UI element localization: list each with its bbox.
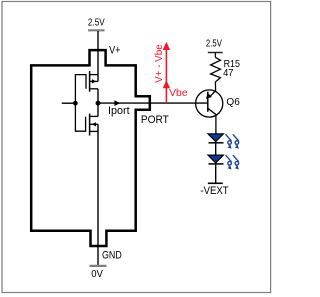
supply -VEXT xyxy=(200,183,229,197)
wire GND (NMOS source to ground) xyxy=(97,124,99,265)
svg-text:V+ - Vbe: V+ - Vbe xyxy=(154,44,165,83)
svg-text:2.5V: 2.5V xyxy=(206,38,222,49)
emitter arrow Q6 (points into base, PNP) xyxy=(206,93,212,99)
power rail 2.5V (left) xyxy=(88,17,106,31)
wire PORT to transistor base xyxy=(98,102,208,104)
LED D1 xyxy=(208,134,224,143)
source lead M2 xyxy=(90,130,98,132)
svg-text:Iport: Iport xyxy=(108,105,130,117)
gate bracket M1 xyxy=(75,75,86,104)
MOSFET M1 (PMOS) xyxy=(75,71,98,103)
wire D1 to D2 xyxy=(215,143,217,155)
svg-text:PORT: PORT xyxy=(141,114,169,126)
current arrow Iport xyxy=(114,100,120,106)
collector Q6 xyxy=(208,108,216,134)
transistor Q6 (PNP) xyxy=(196,90,223,134)
light arrows D2 xyxy=(226,155,239,169)
arrow on M2 body lead (points left) xyxy=(92,122,97,126)
svg-text:47: 47 xyxy=(223,68,233,79)
body lead M2 with arrow xyxy=(90,123,98,125)
base bar Q6 xyxy=(207,92,209,112)
MOSFET M2 (NMOS) xyxy=(75,103,98,135)
source lead M1 xyxy=(90,74,98,76)
gate bracket M2 xyxy=(75,103,85,131)
svg-text:GND: GND xyxy=(102,250,122,262)
power rail 2.5V (right) xyxy=(206,38,223,58)
annotation arrow V+ - Vbe (red) xyxy=(154,42,170,103)
channel M1 xyxy=(89,71,91,92)
ground rail 0V xyxy=(90,266,107,280)
output junction dot xyxy=(96,101,101,106)
gate stub wire xyxy=(62,102,76,104)
channel M2 xyxy=(89,114,91,136)
resistor R15 47 xyxy=(211,57,221,91)
body lead M1 with arrow xyxy=(90,80,98,82)
wire D2 to -VEXT xyxy=(215,164,217,183)
drain lead M2 xyxy=(90,115,98,117)
emitter Q6 xyxy=(209,91,216,98)
drain lead M1 xyxy=(90,88,98,90)
arrow on M1 body lead (points right) xyxy=(92,79,97,83)
svg-text:Q6: Q6 xyxy=(226,97,240,108)
svg-text:V+: V+ xyxy=(109,45,121,57)
svg-text:Vbe: Vbe xyxy=(169,88,188,99)
gate junction dot xyxy=(73,101,78,106)
light arrows D1 xyxy=(226,134,239,148)
svg-text:0V: 0V xyxy=(91,269,103,280)
svg-text:-VEXT: -VEXT xyxy=(200,186,229,198)
svg-text:2.5V: 2.5V xyxy=(88,17,106,28)
IC box outline with V+, PORT, GND pin tabs xyxy=(31,50,150,246)
wire output node (drain-drain) xyxy=(97,89,99,117)
wire V+ from rail into IC xyxy=(97,31,99,81)
LED D2 xyxy=(208,155,224,164)
